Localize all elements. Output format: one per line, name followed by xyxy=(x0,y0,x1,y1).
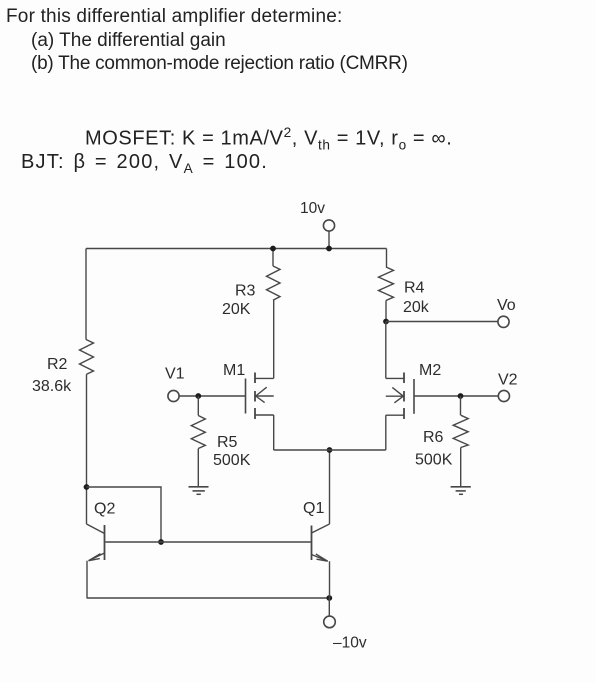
node: R3 top junction xyxy=(270,246,276,252)
label R2 xyxy=(47,356,68,373)
wire: R5 lower lead xyxy=(197,449,199,487)
node: Q2 collector tie junction xyxy=(84,484,90,490)
terminal 10v supply xyxy=(300,200,335,249)
svg-text:R5: R5 xyxy=(217,434,238,451)
label R2 value 38.6k xyxy=(32,378,72,395)
wire: R5 upper lead xyxy=(197,396,199,416)
resistor R4 xyxy=(379,267,394,322)
wire: Q1 emitter drop xyxy=(329,561,331,598)
label R6 value 500K xyxy=(415,452,453,469)
label R5 xyxy=(217,434,238,451)
wire: R6 upper lead xyxy=(460,396,462,415)
svg-text:Q1: Q1 xyxy=(303,500,324,517)
resistor R3 xyxy=(267,249,281,301)
wire: M2 source drop xyxy=(385,415,387,450)
svg-text:500K: 500K xyxy=(213,452,251,469)
label Q2 xyxy=(94,501,115,518)
svg-text:–10v: –10v xyxy=(333,635,367,652)
svg-text:20K: 20K xyxy=(222,301,251,318)
wire: Q2 emitter drop xyxy=(86,561,88,598)
svg-text:M2: M2 xyxy=(419,362,441,379)
label R6 xyxy=(423,429,444,446)
svg-text:M1: M1 xyxy=(223,362,245,379)
wire: left rail lower segment (R2 to Q2 collector) xyxy=(86,374,88,524)
svg-text:V2: V2 xyxy=(498,372,518,389)
node: Vo junction xyxy=(383,319,389,325)
node: R5 tap junction xyxy=(195,393,201,399)
svg-text:10v: 10v xyxy=(300,200,325,217)
label R3 value 20K xyxy=(222,301,251,318)
svg-text:Q2: Q2 xyxy=(94,501,115,518)
wire: R6 lower lead xyxy=(460,448,462,487)
terminal V1 xyxy=(165,366,185,402)
wire: M1 source drop xyxy=(273,415,275,450)
mosfet M2 xyxy=(386,373,414,420)
node: 10v junction on top rail xyxy=(326,246,332,252)
wire: -10V bottom rail xyxy=(87,597,330,599)
node: R6 tap junction xyxy=(458,393,464,399)
svg-text:R4: R4 xyxy=(404,280,425,297)
node: tail junction (sources to Q1 collector) xyxy=(327,447,333,453)
wire: V2 gate wire xyxy=(414,395,498,397)
svg-text:20k: 20k xyxy=(403,299,430,316)
wire: Q2 collector-base tie xyxy=(87,487,162,542)
label R4 xyxy=(404,280,425,297)
label R3 xyxy=(235,283,256,300)
resistor R2 xyxy=(80,340,94,375)
label Q1 xyxy=(303,500,324,517)
wire: Vo output wire xyxy=(386,321,498,323)
svg-text:38.6k: 38.6k xyxy=(32,378,72,395)
wire: Q1 collector rise to tail node xyxy=(329,450,331,524)
wire: V1 gate wire xyxy=(179,395,245,397)
terminal V2 xyxy=(498,372,518,402)
wire: M1 drain rise to R3 xyxy=(273,300,275,378)
wire: left rail upper segment xyxy=(85,249,87,340)
node: -10v junction xyxy=(326,595,332,601)
label R4 value 20k xyxy=(403,299,430,316)
transistor Q1 xyxy=(312,524,330,561)
wire: +10V top rail xyxy=(86,248,387,250)
label M2 xyxy=(419,362,441,379)
terminal -10v supply xyxy=(324,598,367,652)
transistor Q2 xyxy=(87,524,105,561)
resistor R6 xyxy=(453,415,468,447)
svg-text:R6: R6 xyxy=(423,429,444,446)
label R5 value 500K xyxy=(213,452,251,469)
svg-text:R3: R3 xyxy=(235,283,256,300)
label M1 xyxy=(223,362,245,379)
node: base bus junction xyxy=(158,539,164,545)
svg-text:500K: 500K xyxy=(415,452,453,469)
svg-text:Vo: Vo xyxy=(497,297,516,314)
terminal Vo xyxy=(497,297,516,327)
resistor R5 xyxy=(191,416,205,449)
mosfet M1 xyxy=(246,373,274,420)
wire: base bus Q2 to Q1 xyxy=(106,541,311,543)
wire: M2 drain drop from Vo node xyxy=(385,322,387,379)
svg-text:V1: V1 xyxy=(165,366,185,383)
wire: R4 top corner from rail xyxy=(386,249,388,268)
wire: source coupling rail xyxy=(274,449,386,451)
svg-text:R2: R2 xyxy=(47,356,68,373)
ground (R5) xyxy=(189,487,209,495)
ground (R6) xyxy=(451,487,471,495)
